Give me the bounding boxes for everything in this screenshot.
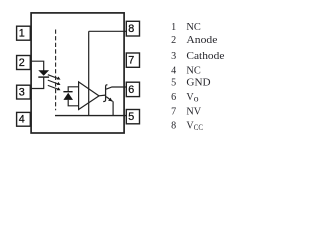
svg-text:NV: NV bbox=[186, 107, 202, 118]
svg-text:6: 6 bbox=[128, 84, 134, 96]
svg-text:5: 5 bbox=[128, 111, 134, 123]
svg-text:1: 1 bbox=[19, 28, 25, 40]
svg-text:2: 2 bbox=[171, 35, 176, 46]
svg-text:6: 6 bbox=[171, 92, 176, 103]
svg-text:7: 7 bbox=[171, 107, 176, 118]
svg-text:8: 8 bbox=[171, 121, 176, 132]
svg-text:o: o bbox=[194, 93, 199, 104]
svg-text:5: 5 bbox=[171, 77, 176, 88]
svg-text:NC: NC bbox=[186, 22, 201, 33]
svg-text:7: 7 bbox=[128, 55, 134, 67]
svg-text:CC: CC bbox=[194, 123, 204, 132]
svg-text:Cathode: Cathode bbox=[186, 51, 225, 62]
svg-text:4: 4 bbox=[19, 114, 25, 126]
svg-text:3: 3 bbox=[171, 51, 176, 62]
svg-text:1: 1 bbox=[171, 22, 176, 33]
svg-text:GND: GND bbox=[186, 77, 210, 88]
svg-text:NC: NC bbox=[186, 66, 201, 77]
svg-text:3: 3 bbox=[19, 87, 25, 99]
svg-text:Anode: Anode bbox=[186, 35, 218, 46]
svg-text:8: 8 bbox=[128, 23, 134, 35]
svg-text:4: 4 bbox=[171, 66, 176, 77]
svg-text:2: 2 bbox=[19, 57, 25, 69]
